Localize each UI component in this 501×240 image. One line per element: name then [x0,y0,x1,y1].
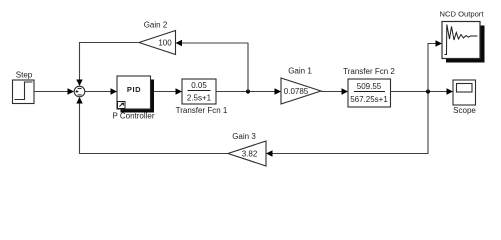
PID controller block U1 (P Controller) [112,76,154,121]
wire gain 3 output to sum bottom input [76,97,228,154]
junction node A (tap to gain 2) [246,89,250,93]
wire transfer fcn 1 to gain 1 [216,88,281,94]
svg-text:509.55: 509.55 [357,82,382,91]
svg-text:Gain 3: Gain 3 [232,132,256,141]
wire node B up to NCD Outport input [428,40,442,91]
wire node B down and left to gain 3 input [266,94,428,157]
svg-text:567.25s+1: 567.25s+1 [350,95,388,104]
svg-text:Step: Step [16,71,33,80]
wire node A up and left to gain 2 input [176,40,249,92]
scope block Scope [453,80,476,115]
transfer function block Transfer Fcn 2 (509.55 / 567.25s+1) [343,67,395,107]
svg-text:0.0785: 0.0785 [284,87,309,96]
junction node B (tap to NCD and gain 3) [426,89,430,93]
wire gain 1 to transfer fcn 2 [321,88,348,94]
wire gain 2 output to sum top input [76,43,139,87]
transfer function block Transfer Fcn 1 (0.05 / 2.5s+1) [176,79,228,115]
svg-text:0.05: 0.05 [191,81,207,90]
sum junction S1 (+ - -) [74,86,85,97]
svg-text:PID: PID [127,85,141,94]
step source Step [13,71,35,104]
svg-text:Scope: Scope [453,106,476,115]
gain block Gain 2 (100, pointing left) [139,21,176,55]
gain block Gain 3 (3.82, pointing left) [228,132,266,166]
wire sum to PID [85,88,117,94]
svg-text:2.5s+1: 2.5s+1 [187,94,212,103]
svg-text:Gain 2: Gain 2 [144,21,168,30]
wire PID to transfer fcn 1 [154,88,182,94]
NCD Outport block with shadow [440,10,485,63]
svg-text:Transfer Fcn 1: Transfer Fcn 1 [176,106,228,115]
gain block Gain 1 (0.0785, pointing right) [281,67,321,105]
svg-text:Transfer Fcn 2: Transfer Fcn 2 [343,67,395,76]
wire step to sum [34,88,74,94]
svg-text:3.82: 3.82 [242,150,258,159]
svg-text:NCD Outport: NCD Outport [440,10,485,19]
wire transfer fcn 2 to scope [391,88,454,94]
svg-text:100: 100 [158,39,172,48]
svg-text:Gain 1: Gain 1 [288,67,312,76]
svg-text:P Controller: P Controller [112,112,154,121]
